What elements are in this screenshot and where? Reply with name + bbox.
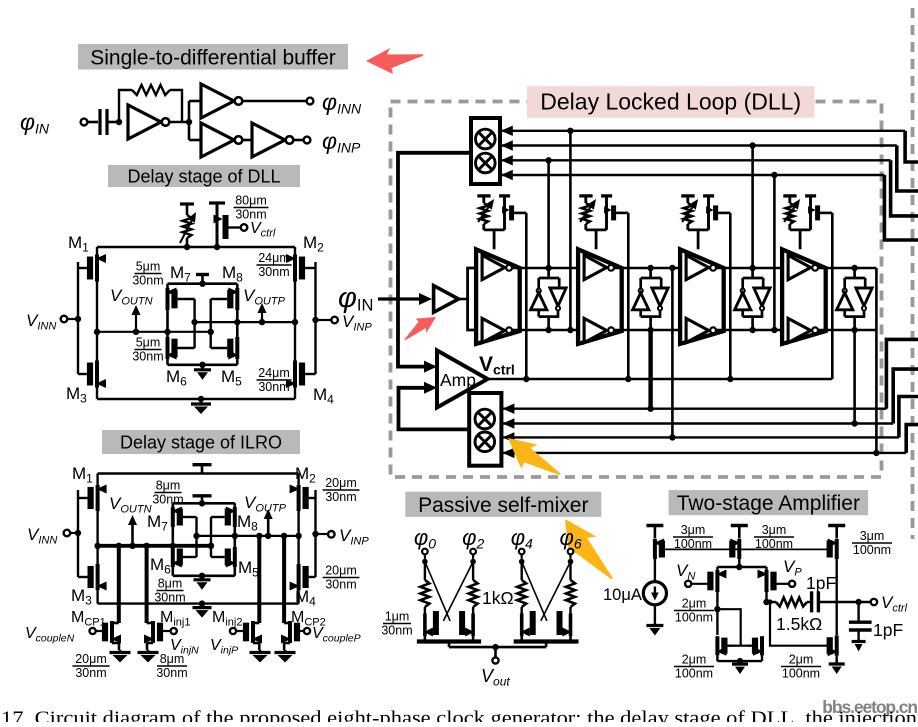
input coupling capacitor (98, 109, 101, 135)
junction (75, 530, 81, 536)
wire bottom mixer out to Amp (399, 388, 470, 430)
svg-text:Delay Locked Loop (DLL): Delay Locked Loop (DLL) (540, 89, 801, 115)
wire output stage (836, 559, 838, 602)
svg-text:Two-stage Amplifier: Two-stage Amplifier (677, 492, 860, 515)
terminal V_injN (171, 628, 177, 634)
junction (855, 599, 861, 605)
mixer group 2 resistor A (521, 562, 523, 580)
vdd T 2 (731, 524, 748, 527)
wire tap to top mixer w1 (569, 131, 572, 330)
delay stage 3 body (680, 249, 724, 344)
wire tap latch3 stem to top mixer w2 (751, 146, 754, 269)
cross wire VOUTP (195, 321, 295, 323)
gate line M7/M6 (195, 517, 197, 557)
wire top mixer input 2 (500, 144, 897, 146)
junction (116, 543, 122, 549)
bottom rail wire (97, 398, 295, 400)
node (422, 559, 428, 565)
V_OUTN arrow (135, 310, 137, 332)
junction (295, 533, 301, 539)
svg-text:1pF: 1pF (806, 573, 836, 593)
svg-text:20μm: 20μm (325, 564, 357, 578)
terminal Vctrl (241, 224, 248, 231)
junction (737, 658, 743, 664)
junction (193, 533, 199, 539)
node A (116, 119, 122, 125)
wire tap to top mixer w4 (773, 175, 776, 330)
gate line left (77, 490, 79, 577)
delay stage 4 bias PMOS (805, 194, 816, 197)
delay stage 4 varactor (783, 194, 796, 197)
wire stage 2 gate to Vctrl (616, 212, 628, 215)
transistor M8 (233, 507, 237, 527)
transistor MCP2 (284, 622, 290, 625)
svg-text:Passive self-mixer: Passive self-mixer (418, 494, 588, 517)
ILRO top rail (98, 472, 299, 474)
svg-text:8μm: 8μm (158, 577, 183, 591)
cross wire VOUTP (197, 535, 299, 537)
red annotation arrow to input buffer (398, 309, 440, 344)
wire tap to bottom mixer w4 (875, 268, 878, 453)
wire (316, 533, 328, 535)
svg-text:3μm: 3μm (860, 529, 885, 543)
wire (569, 554, 571, 559)
junction (184, 244, 190, 250)
compensation capacitor 1pF (807, 601, 812, 603)
terminal V_ctrl out (871, 599, 877, 605)
svg-text:10μA: 10μA (603, 586, 642, 604)
terminal V_coupleP (304, 628, 310, 634)
wire (472, 554, 474, 559)
junction (94, 329, 100, 335)
terminal V_INN (61, 316, 68, 323)
junction (75, 316, 81, 322)
svg-text:24μm: 24μm (258, 251, 290, 265)
wire bottom rail 2 (614, 329, 680, 332)
svg-text:5μm: 5μm (136, 336, 161, 350)
wire gate drive (770, 602, 828, 646)
terminal phi_INN (307, 98, 314, 105)
latch 1 (547, 268, 550, 278)
vdd T (193, 463, 212, 466)
transistor MP3 (835, 539, 839, 559)
svg-text:30nm: 30nm (381, 624, 412, 638)
transistor M6 (171, 547, 175, 567)
junction (198, 396, 204, 402)
ground mirror (739, 661, 742, 664)
V_OUTP arrow (267, 515, 270, 536)
svg-text:2μm: 2μm (789, 653, 814, 667)
ground latch (201, 365, 204, 370)
terminal phi2 (470, 549, 476, 555)
junction Vout (492, 644, 498, 650)
stage 3 buffer bottom (686, 318, 709, 342)
gate line left (77, 262, 79, 374)
red annotation arrow to buffer label (366, 48, 423, 74)
terminal V_coupleN (90, 628, 96, 634)
label Passive self-mixer (405, 492, 601, 517)
svg-text:8μm: 8μm (156, 479, 181, 493)
transistor mirror NMOS right (760, 636, 764, 655)
wire (654, 605, 656, 623)
label Two-stage Amplifier (669, 490, 869, 515)
svg-text:1.5kΩ: 1.5kΩ (776, 614, 822, 634)
transistor M5 (233, 547, 237, 567)
wire tap latch4 stem to bottom mixer w2 (853, 330, 856, 424)
ground output NMOS (835, 660, 838, 664)
ground latch (201, 576, 204, 580)
ground MCP1 (119, 650, 122, 653)
delay stage 1 bias PMOS (499, 194, 510, 197)
svg-text:1μm: 1μm (385, 610, 410, 624)
wire mirror bottom (716, 655, 718, 661)
wire stage 2 bias U (586, 228, 607, 231)
load capacitor 1pF (857, 602, 859, 621)
svg-text:30nm: 30nm (325, 578, 356, 592)
mixer X1 (476, 129, 496, 149)
latch 2 (649, 268, 652, 278)
transistor MN diff right (765, 570, 769, 592)
wire tap latch2 stem to bottom mixer w1 (648, 330, 652, 409)
terminal phi4 (519, 549, 525, 555)
junction (281, 533, 287, 539)
svg-text:24μm: 24μm (258, 366, 290, 380)
svg-text:30nm: 30nm (154, 591, 185, 605)
left branch wire (96, 247, 98, 399)
wire left drain (716, 592, 718, 635)
latch 4 (853, 268, 856, 278)
node (568, 559, 574, 565)
svg-text:20μm: 20μm (325, 476, 357, 490)
ground MCP2 (284, 650, 287, 653)
ground Minj1 (147, 650, 150, 653)
delay stage 2 body (578, 249, 622, 344)
wire (189, 100, 201, 103)
wire top rail 4 (818, 267, 876, 270)
wire to phi_INN (243, 100, 307, 103)
transistor M1 (96, 485, 100, 511)
wire stage 4 bias U (790, 228, 811, 231)
svg-text:1pF: 1pF (873, 620, 903, 640)
svg-text:30nm: 30nm (156, 666, 187, 680)
wire inj tap 4 (282, 536, 286, 623)
gate line right (314, 490, 316, 577)
svg-text:100nm: 100nm (674, 537, 712, 551)
wire (88, 121, 99, 124)
junction (312, 317, 318, 323)
terminal phi_INP (304, 137, 311, 144)
mixer group 2 transistor B (569, 614, 573, 637)
junction (164, 329, 170, 335)
latch 3 (751, 268, 754, 278)
wire top rail 2 (614, 267, 680, 270)
wire bottom rail 1 (512, 329, 578, 332)
delay stage 2 varactor (579, 194, 592, 197)
junction (143, 543, 149, 549)
wire top rail 1 (512, 267, 578, 270)
junction (170, 543, 176, 549)
top mixer box (471, 118, 500, 184)
junction (292, 319, 298, 325)
svg-text:Delay stage of ILRO: Delay stage of ILRO (120, 432, 282, 452)
mixer group 1 resistor A (424, 562, 426, 580)
latch top rail (173, 502, 235, 505)
junction (523, 376, 529, 382)
junction (199, 500, 205, 506)
svg-text:30nm: 30nm (132, 350, 163, 364)
wire stage 1 bias U (484, 228, 505, 231)
svg-text:17. Circuit diagram of the pr: 17. Circuit diagram of the proposed eigh… (1, 709, 917, 723)
ground main (200, 399, 203, 404)
mixer group 1 resistor B (472, 562, 474, 580)
mixer X2 (476, 153, 496, 173)
transistor M7 (171, 507, 175, 527)
latch top rail (168, 282, 238, 285)
ground main (201, 604, 204, 608)
amplifier Amp (437, 350, 488, 407)
ground Minj2 (259, 650, 262, 653)
junction (265, 533, 271, 539)
wire inj tap 1 (117, 546, 121, 623)
mixer group 1 transistor B (471, 614, 475, 637)
stage 1 buffer bottom (482, 318, 505, 342)
wire cross gate A (522, 562, 547, 621)
wire output node (837, 601, 871, 603)
wire bottom rail 3 (716, 329, 782, 332)
wire (243, 139, 253, 142)
input buffer (434, 286, 459, 313)
wire (316, 319, 332, 321)
wire out bus (449, 646, 496, 649)
junction (129, 543, 135, 549)
svg-text:30nm: 30nm (235, 208, 266, 222)
latch vdd T (196, 273, 209, 276)
junction (214, 244, 220, 250)
yellow annotation arrow to bottom mixer (499, 427, 566, 490)
wire top mixer input 4 (500, 174, 885, 176)
delay stage 1 body (476, 249, 520, 344)
gate line M8/M5 (209, 299, 211, 348)
stage 1 buffer top (482, 255, 505, 279)
wire (170, 121, 190, 124)
wire phi_IN input (378, 297, 424, 300)
svg-text:30nm: 30nm (258, 380, 289, 394)
terminal Vout (492, 657, 498, 663)
wire gate MCP2 (300, 630, 304, 632)
wire mirror gate tie (734, 645, 748, 647)
node (519, 559, 525, 565)
svg-text:3μm: 3μm (762, 523, 787, 537)
svg-text:100nm: 100nm (853, 543, 891, 557)
label Delay stage of ILRO (102, 430, 300, 454)
inverter U3 (201, 123, 234, 157)
latch vdd T (193, 494, 212, 497)
stage 4 buffer bottom (788, 318, 811, 342)
junction (714, 606, 720, 612)
wire bottom mixer input 4 (501, 452, 906, 454)
delay stage 1 varactor (477, 194, 490, 197)
transistor MP2 (737, 539, 741, 559)
ILRO bottom rail (98, 602, 299, 604)
wire gate MCP1 (96, 630, 104, 632)
svg-text:Delay stage of DLL: Delay stage of DLL (127, 166, 280, 186)
V_OUTP arrow (261, 308, 263, 322)
node (470, 559, 476, 565)
stage 2 buffer bottom (584, 318, 607, 342)
wire (424, 554, 426, 559)
vdd T 1 (646, 524, 663, 527)
mixer group 1 transistor A (423, 614, 427, 637)
transistor M1 (95, 255, 99, 282)
svg-text:3μm: 3μm (681, 523, 706, 537)
terminal phi0 (422, 549, 428, 555)
label Delay Locked Loop (DLL) (527, 86, 815, 118)
transistor mirror NMOS left (715, 636, 719, 655)
wire (654, 559, 656, 582)
wire Vctrl line (488, 378, 833, 380)
transistor MCP1 (112, 622, 119, 625)
DLL dashed border box (391, 102, 882, 478)
wire tail (738, 559, 740, 567)
vdd T 3 (828, 524, 845, 527)
wire source bracket (520, 636, 523, 642)
wire (521, 554, 523, 559)
wire gate Minj2 (236, 630, 243, 632)
right branch wire (294, 247, 296, 399)
junction (208, 543, 214, 549)
wire out bus (496, 646, 547, 649)
transistor M6 (166, 337, 170, 359)
mixer X4 (475, 432, 495, 452)
mixer group 2 transistor A (520, 614, 524, 637)
mixer X3 (475, 409, 495, 429)
transistor M2 (297, 485, 301, 511)
terminal phi_IN (81, 119, 88, 126)
terminal V_N (685, 581, 691, 587)
svg-text:100nm: 100nm (755, 537, 793, 551)
transistor M8 (235, 288, 239, 310)
svg-text:100nm: 100nm (675, 667, 713, 681)
wire top mixer input 1 (500, 130, 906, 132)
junction (208, 329, 214, 335)
wire mixer out to Amp (398, 153, 471, 367)
bottom mixer box (469, 393, 501, 466)
label Single-to-differential buffer (78, 44, 348, 70)
wire stage 4 gate to Vctrl (820, 212, 832, 215)
wire (767, 601, 776, 603)
junction (199, 600, 205, 606)
yellow annotation arrow to self-mixer label (550, 510, 619, 592)
outer dashed border (ILRO block, cut off) (911, 8, 915, 539)
svg-text:30nm: 30nm (258, 265, 289, 279)
wire (107, 121, 116, 124)
right branch (297, 474, 299, 604)
svg-text:30nm: 30nm (152, 493, 183, 507)
wire top mixer input 3 (500, 159, 891, 161)
wire inj tap 3 (257, 536, 261, 623)
transistor Mctl 80um/30nm (209, 201, 225, 204)
delay stage 3 bias PMOS (703, 194, 714, 197)
wire tap to bottom mixer w3 (671, 268, 674, 437)
gate line M7/M6 (193, 299, 195, 348)
svg-text:30nm: 30nm (325, 490, 356, 504)
transistor M7 (166, 288, 170, 310)
inverter U1 (128, 105, 161, 139)
wire (189, 139, 201, 142)
svg-text:100nm: 100nm (782, 667, 820, 681)
left branch (96, 474, 98, 604)
ground load cap (857, 640, 860, 642)
transistor MP1 3um/100nm (653, 539, 657, 559)
junction (234, 319, 240, 325)
wire bottom rail 4 (818, 329, 876, 332)
wire cross gate B (443, 562, 473, 621)
feedback resistor (119, 90, 132, 122)
wire Vctrl gate (229, 226, 241, 228)
junction (625, 376, 631, 382)
ground current source (654, 623, 657, 626)
wire bottom mixer input 1 (501, 408, 886, 410)
transistor M4 (293, 361, 297, 388)
transistor MN diff left 2um/100nm (715, 570, 719, 592)
transistor Minj1 (147, 622, 153, 625)
junction (232, 533, 238, 539)
terminal V_INN (64, 530, 71, 537)
wire source bracket (424, 636, 427, 642)
wire right drain to node (765, 592, 767, 602)
gate line right (314, 262, 316, 374)
wire top rail 3 (716, 267, 782, 270)
wire inj tap 2 (145, 546, 149, 623)
latch bottom rail (168, 363, 238, 366)
wire (494, 647, 497, 657)
svg-text:Amp: Amp (440, 370, 476, 390)
junction (191, 319, 197, 325)
svg-text:80μm: 80μm (235, 194, 267, 208)
junction (727, 376, 733, 382)
junction (199, 573, 205, 579)
wire mirror tie (717, 609, 740, 646)
junction (199, 362, 205, 368)
transistor M5 (235, 337, 239, 359)
wire gate bus (665, 548, 830, 550)
junction (199, 281, 205, 287)
wire stage 3 bias U (688, 228, 709, 231)
label Delay stage of DLL (108, 165, 300, 187)
terminal V_INP (331, 317, 338, 324)
wire (716, 567, 718, 570)
latch bottom rail (173, 574, 235, 577)
transistor M2 (293, 255, 297, 282)
svg-text:2μm: 2μm (682, 653, 707, 667)
V_OUTN arrow (131, 521, 134, 546)
svg-text:100nm: 100nm (675, 611, 713, 625)
stage 2 buffer top (584, 255, 607, 279)
svg-text:20μm: 20μm (75, 652, 107, 666)
wire buffer tip to stage1 (459, 298, 468, 301)
transistor M3 (95, 361, 99, 388)
top rail wire (97, 246, 295, 248)
varactor top (180, 202, 194, 205)
svg-text:2μm: 2μm (682, 597, 707, 611)
terminal V_injP (230, 628, 236, 634)
svg-text:30nm: 30nm (132, 274, 163, 288)
svg-text:Single-to-differential buffer: Single-to-differential buffer (90, 46, 336, 69)
svg-text:5μm: 5μm (136, 260, 161, 274)
transistor output NMOS 2um/100nm (835, 636, 839, 656)
transistor M3 (96, 564, 100, 590)
delay stage 4 body (782, 249, 826, 344)
